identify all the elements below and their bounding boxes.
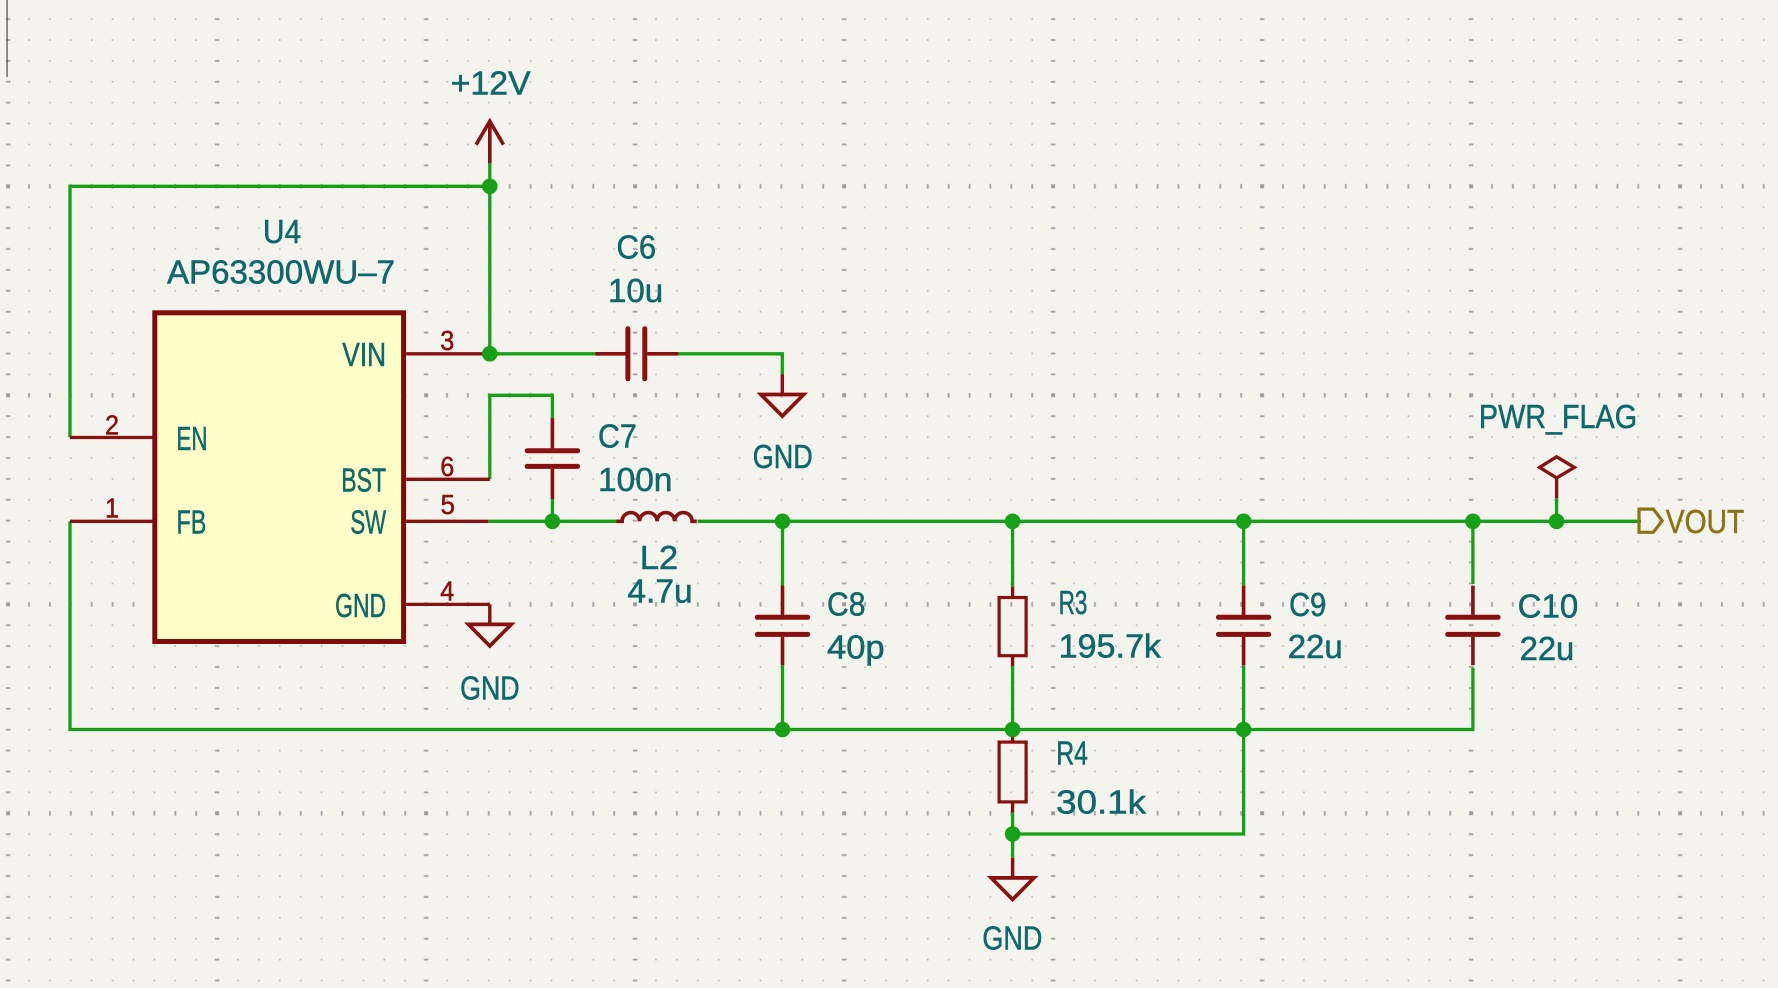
- resistor R4: [1011, 731, 1014, 742]
- junction (489.8,186.3): [482, 179, 498, 195]
- svg-text:C7: C7: [598, 419, 637, 456]
- svg-text:VIN: VIN: [342, 337, 386, 374]
- ground symbol at C6: [781, 375, 784, 395]
- svg-text:40p: 40p: [827, 629, 885, 666]
- svg-text:10u: 10u: [608, 273, 663, 310]
- junction (1243.6,729.5): [1236, 722, 1252, 738]
- ground symbol at pin 4: [488, 604, 491, 624]
- junction (782.5,521.3): [775, 514, 791, 530]
- pin 1 FB stub: [70, 520, 153, 523]
- pin 6 BST stub: [406, 478, 490, 481]
- wire C6 right to GND: [677, 354, 782, 375]
- wire C8 top: [781, 521, 784, 585]
- wire VIN to C6 left: [490, 352, 596, 355]
- capacitor C10: [1471, 586, 1475, 615]
- wire C8 bottom: [781, 665, 784, 729]
- junction (782.5,729.5): [775, 722, 791, 738]
- capacitor C8: [781, 586, 785, 615]
- inductor L2: [616, 513, 697, 522]
- svg-text:100n: 100n: [598, 462, 672, 499]
- svg-text:22u: 22u: [1288, 629, 1343, 666]
- svg-text:C6: C6: [616, 229, 656, 266]
- svg-text:5: 5: [441, 489, 456, 520]
- resistor R3: [1011, 587, 1014, 598]
- svg-text:C10: C10: [1518, 589, 1579, 626]
- wire C7 bottom to SW node: [551, 499, 554, 521]
- IC U4 AP63300WU-7 body: [155, 313, 404, 642]
- junction (1012.6,521.3): [1005, 514, 1021, 530]
- wire top rail from +12V junction to EN pin: [70, 186, 490, 437]
- wire junction down to VIN pin: [488, 186, 491, 353]
- pin 5 SW stub: [406, 520, 488, 523]
- svg-text:AP63300WU–7: AP63300WU–7: [167, 254, 395, 291]
- junction (1472.9,521.3): [1465, 514, 1481, 530]
- svg-text:BST: BST: [341, 463, 386, 500]
- pin 3 VIN stub: [406, 352, 490, 355]
- wire R3 bottom: [1011, 666, 1014, 730]
- wire C9 bottom: [1242, 665, 1245, 729]
- svg-text:EN: EN: [177, 421, 208, 458]
- svg-text:1: 1: [105, 493, 119, 524]
- junction (1556.6,521.3): [1549, 514, 1565, 530]
- wire C9 top: [1242, 521, 1245, 585]
- wire C10 top: [1471, 521, 1474, 584]
- hierarchical label VOUT shape: [1639, 509, 1662, 532]
- pin 2 EN stub: [70, 436, 153, 439]
- svg-text:+12V: +12V: [451, 65, 532, 102]
- svg-text:3: 3: [440, 325, 454, 356]
- wire SW pin to L2: [488, 520, 617, 523]
- power symbol +12V arrow: [476, 121, 503, 163]
- junction (1012.6,834): [1005, 826, 1021, 842]
- ground symbol at R4 bottom: [1011, 858, 1014, 878]
- svg-text:SW: SW: [350, 505, 386, 542]
- wire BST loop to C7 top: [490, 395, 553, 479]
- junction (1012.6,729.5): [1005, 722, 1021, 738]
- svg-text:FB: FB: [177, 505, 207, 542]
- wire FB loop: FB pin down and along bottom rail to C10 bottom: [70, 521, 1473, 729]
- svg-text:4: 4: [440, 576, 454, 607]
- svg-text:4.7u: 4.7u: [627, 574, 692, 611]
- svg-text:L2: L2: [640, 540, 678, 577]
- svg-text:GND: GND: [753, 439, 813, 476]
- power flag PWR_FLAG diamond: [1540, 457, 1575, 498]
- svg-text:PWR_FLAG: PWR_FLAG: [1479, 399, 1637, 436]
- wire +12V stem to junction: [488, 163, 491, 186]
- wire PWR_FLAG stem: [1555, 498, 1558, 521]
- junction (489.8,353.8): [482, 346, 498, 362]
- wire L2 to VOUT run: [698, 520, 1641, 523]
- capacitor C9: [1242, 586, 1246, 615]
- svg-text:U4: U4: [263, 214, 301, 251]
- svg-text:6: 6: [440, 451, 454, 482]
- svg-text:2: 2: [105, 410, 119, 441]
- svg-text:GND: GND: [982, 921, 1042, 958]
- wire R4 bottom stub: [1011, 813, 1014, 858]
- svg-text:VOUT: VOUT: [1666, 504, 1744, 541]
- wire C9 junction down to R4 bottom node: [1013, 730, 1244, 835]
- junction (1243.6,521.3): [1236, 514, 1252, 530]
- svg-text:GND: GND: [460, 671, 520, 708]
- capacitor C7: [551, 418, 555, 448]
- svg-text:GND: GND: [335, 588, 386, 625]
- svg-text:22u: 22u: [1520, 631, 1575, 668]
- svg-text:30.1k: 30.1k: [1056, 785, 1146, 822]
- wire R3 top: [1011, 521, 1014, 587]
- svg-text:R4: R4: [1056, 735, 1088, 772]
- junction (552.4,521.3): [545, 514, 561, 530]
- pin 4 GND stub: [406, 603, 490, 606]
- capacitor C6 (horizontal): [596, 352, 626, 356]
- svg-text:R3: R3: [1059, 585, 1088, 622]
- svg-text:195.7k: 195.7k: [1059, 629, 1162, 666]
- svg-text:C9: C9: [1289, 587, 1326, 624]
- svg-text:C8: C8: [827, 587, 866, 624]
